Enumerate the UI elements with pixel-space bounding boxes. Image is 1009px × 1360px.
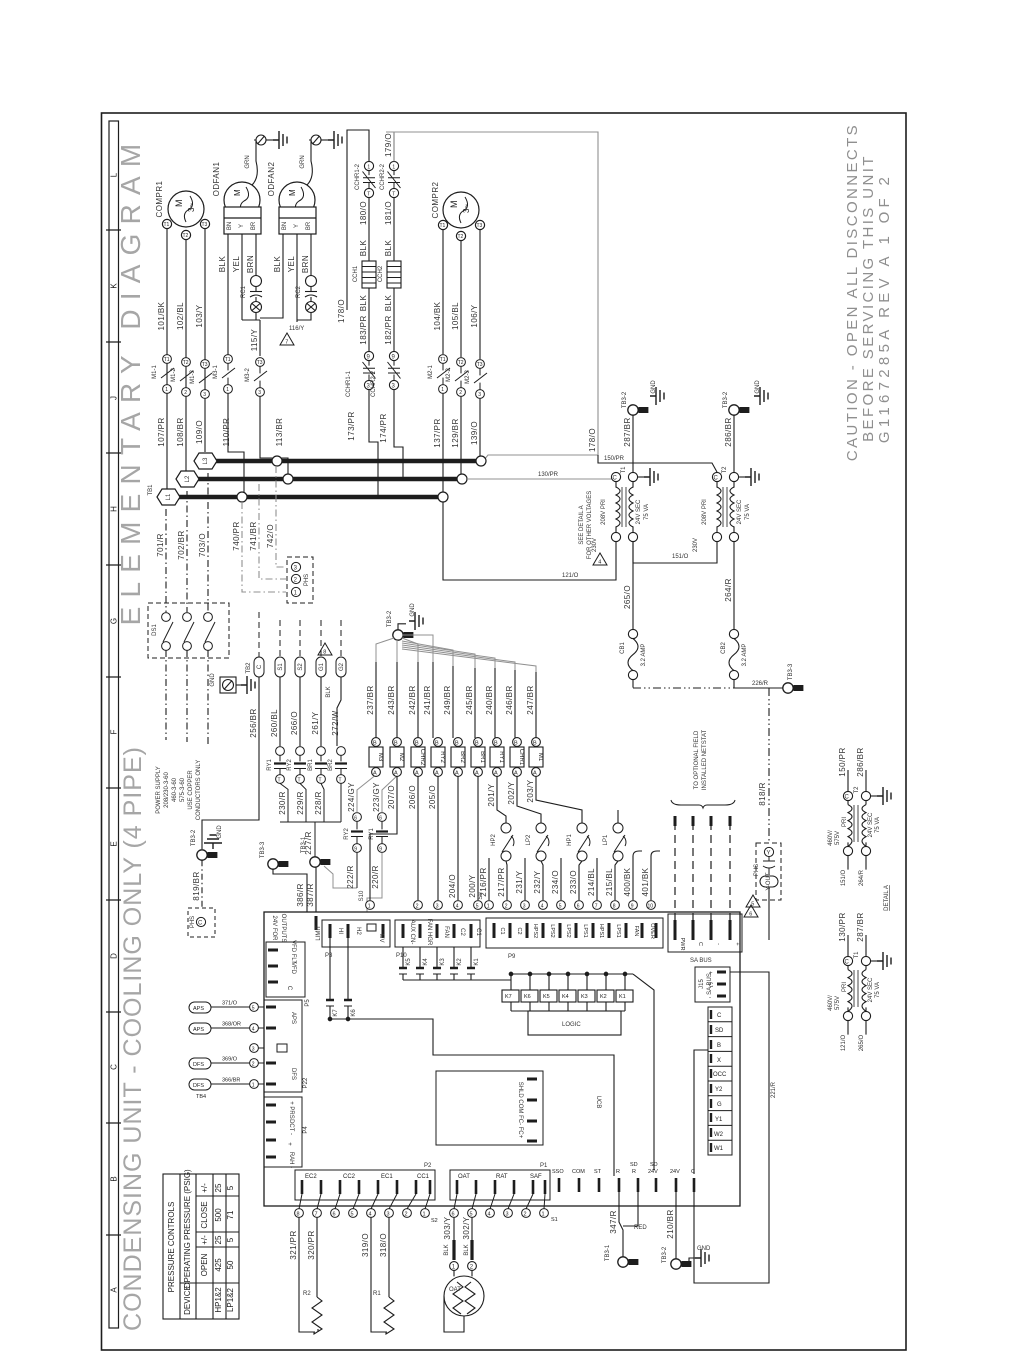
svg-text:R1: R1	[373, 1291, 381, 1297]
svg-text:H2: H2	[355, 927, 361, 935]
svg-text:RC1: RC1	[241, 285, 247, 298]
svg-text:247/BR: 247/BR	[526, 685, 535, 714]
svg-text:RED: RED	[634, 1225, 647, 1231]
svg-text:APS: APS	[193, 1006, 204, 1012]
svg-text:5: 5	[351, 1212, 354, 1218]
contactor M3-1	[222, 355, 235, 394]
svg-text:EC2: EC2	[305, 1174, 317, 1180]
svg-text:Y: Y	[239, 224, 245, 228]
contactor M2-2	[455, 358, 468, 397]
svg-text:APS: APS	[193, 1027, 204, 1033]
contactor M1-3	[199, 360, 212, 399]
svg-text:TB4: TB4	[196, 1094, 206, 1100]
svg-text:SAF: SAF	[530, 1174, 542, 1180]
zone letters	[110, 172, 119, 1292]
svg-text:BRN: BRN	[301, 255, 310, 273]
svg-text:BN: BN	[227, 222, 233, 230]
svg-text:GND: GND	[210, 673, 216, 687]
svg-text:T: T	[392, 192, 395, 198]
svg-text:1: 1	[367, 164, 370, 170]
svg-text:BR2: BR2	[328, 759, 334, 771]
svg-text:M1-3: M1-3	[190, 370, 196, 384]
svg-text:TB3-2: TB3-2	[191, 829, 197, 846]
svg-text:BLK: BLK	[326, 686, 332, 697]
svg-text:10: 10	[648, 904, 654, 910]
svg-text:BLK: BLK	[273, 256, 282, 273]
svg-text:25: 25	[214, 1235, 223, 1244]
svg-text:T3: T3	[257, 360, 263, 366]
svg-text:T2: T2	[458, 234, 464, 240]
svg-text:GND: GND	[217, 825, 223, 839]
svg-text:RY2: RY2	[439, 751, 445, 763]
S9 pin row	[485, 901, 656, 910]
svg-text:W2: W2	[714, 1132, 724, 1138]
svg-text:1: 1	[423, 1212, 426, 1218]
svg-text:216/PR: 216/PR	[479, 867, 488, 896]
svg-text:8: 8	[613, 904, 616, 910]
svg-text:CONDUCTORS ONLY: CONDUCTORS ONLY	[196, 760, 202, 820]
svg-text:GRN: GRN	[300, 155, 306, 168]
relay coils RY1 RY2 BR1 BR2	[274, 747, 347, 857]
svg-text:M1-1: M1-1	[152, 365, 158, 379]
svg-text:201/Y: 201/Y	[487, 783, 496, 806]
contact CCHR1-1	[363, 351, 376, 389]
svg-text:PRI: PRI	[842, 982, 848, 992]
svg-text:+/-: +/-	[200, 1235, 209, 1245]
svg-text:RY2: RY2	[287, 759, 293, 771]
svg-text:425: 425	[214, 1258, 223, 1272]
svg-text:T: T	[339, 778, 342, 784]
svg-text:130/PR: 130/PR	[538, 472, 559, 478]
netstat dashed drops	[675, 822, 730, 930]
TB3-3 node right of CB2	[734, 680, 783, 688]
svg-text:BRN: BRN	[246, 255, 255, 273]
svg-text:150/PR: 150/PR	[604, 456, 625, 462]
svg-text:C: C	[845, 795, 850, 801]
svg-text:221/R: 221/R	[771, 1081, 777, 1098]
svg-text:DETAIL A: DETAIL A	[884, 885, 890, 911]
svg-text:APS: APS	[290, 1012, 296, 1024]
svg-text:TB3-3: TB3-3	[788, 663, 794, 680]
svg-text:3.2 AMP: 3.2 AMP	[641, 644, 647, 667]
svg-text:6: 6	[577, 904, 580, 910]
svg-text:T: T	[367, 192, 370, 198]
breaker CB1	[628, 629, 638, 679]
svg-text:T2: T2	[458, 360, 464, 366]
svg-text:5: 5	[226, 1185, 235, 1190]
svg-text:575V: 575V	[835, 831, 841, 845]
svg-text:C: C	[691, 1169, 695, 1175]
svg-text:387/R: 387/R	[306, 883, 315, 907]
svg-text:TB3-1: TB3-1	[301, 836, 307, 853]
svg-text:M: M	[233, 189, 242, 196]
svg-text:R2: R2	[303, 1291, 311, 1297]
svg-text:1: 1	[542, 1212, 545, 1218]
210/BR to TB3-2	[676, 1192, 695, 1264]
svg-text:2: 2	[252, 1062, 255, 1068]
svg-text:LPS1: LPS1	[615, 924, 621, 937]
svg-text:ST: ST	[594, 1169, 602, 1175]
connector P2	[295, 1170, 435, 1200]
svg-text:P10: P10	[396, 953, 407, 959]
svg-text:CB1: CB1	[620, 642, 626, 654]
svg-text:302/Y: 302/Y	[462, 1216, 471, 1239]
svg-text:8: 8	[297, 1212, 300, 1218]
svg-text:9: 9	[379, 847, 382, 853]
svg-text:106/Y: 106/Y	[470, 304, 479, 327]
TB3-2 node at left with gnd	[197, 850, 218, 860]
svg-text:K5: K5	[543, 994, 550, 1000]
svg-text:1: 1	[487, 904, 490, 910]
svg-text:701/R: 701/R	[156, 533, 165, 557]
svg-text:24V: 24V	[670, 1169, 680, 1175]
svg-text:K3: K3	[581, 994, 588, 1000]
svg-text:BN: BN	[282, 222, 288, 230]
svg-text:C: C	[717, 1013, 722, 1019]
svg-text:C2: C2	[459, 928, 465, 936]
svg-text:129/BR: 129/BR	[451, 418, 460, 447]
breaker CB2	[729, 629, 739, 679]
svg-text:182/PR: 182/PR	[384, 315, 393, 344]
svg-text:205/O: 205/O	[428, 785, 437, 809]
svg-text:CC2: CC2	[343, 1174, 356, 1180]
feeds from coil row to switches	[497, 776, 618, 823]
contact CCHR2-2 lower	[388, 351, 401, 389]
svg-text:P3: P3	[325, 953, 333, 959]
svg-text:107/PR: 107/PR	[157, 417, 166, 446]
svg-text:OCC: OCC	[713, 1072, 727, 1078]
svg-text:P22: P22	[303, 1077, 309, 1088]
svg-text:A: A	[494, 771, 498, 777]
svg-text:B: B	[455, 741, 459, 747]
detail A transformer T2	[843, 770, 877, 870]
svg-text:K6: K6	[351, 1009, 357, 1017]
svg-text:CC1: CC1	[417, 1174, 430, 1180]
svg-text:L3: L3	[203, 457, 209, 464]
svg-text:M2: M2	[398, 753, 404, 762]
svg-text:2: 2	[505, 904, 508, 910]
svg-text:B: B	[514, 741, 518, 747]
SHLD COM FC box	[436, 1071, 543, 1145]
svg-text:RY1: RY1	[498, 751, 504, 763]
svg-text:M1: M1	[537, 753, 543, 762]
svg-text:P1: P1	[540, 1163, 548, 1169]
svg-text:GND: GND	[697, 1246, 711, 1252]
svg-text:P4: P4	[303, 1126, 309, 1134]
svg-text:+: +	[709, 971, 713, 977]
svg-text:3~: 3~	[462, 204, 471, 213]
TB3-2 fan node	[398, 624, 406, 630]
svg-text:174/PR: 174/PR	[379, 413, 388, 442]
svg-text:RAH -: RAH -	[288, 1152, 294, 1168]
svg-text:103/Y: 103/Y	[195, 304, 204, 327]
svg-text:SA BUS: SA BUS	[690, 958, 712, 964]
svg-text:S9: S9	[478, 892, 484, 900]
svg-text:6: 6	[333, 1212, 336, 1218]
heater CCH1	[362, 261, 376, 351]
svg-text:PHS: PHS	[190, 916, 196, 928]
svg-text:SEE DETAIL A: SEE DETAIL A	[579, 505, 585, 544]
nine coil boxes	[369, 738, 543, 777]
svg-text:L1: L1	[166, 493, 172, 500]
svg-text:VFD FLT: VFD FLT	[290, 940, 296, 964]
svg-text:PRI: PRI	[842, 817, 848, 827]
svg-text:287/BR: 287/BR	[856, 912, 865, 941]
svg-text:151/O: 151/O	[672, 554, 689, 560]
svg-text:BLK: BLK	[464, 1244, 470, 1255]
svg-text:BLK: BLK	[218, 256, 227, 273]
svg-text:Y2: Y2	[715, 1087, 723, 1093]
svg-text:108/BR: 108/BR	[176, 417, 185, 446]
svg-text:BR: BR	[251, 221, 257, 230]
svg-text:ODFAN2: ODFAN2	[267, 162, 276, 197]
R1 resistor circuit	[371, 1218, 394, 1335]
svg-text:50: 50	[226, 1260, 235, 1269]
svg-text:YEL: YEL	[232, 256, 241, 273]
svg-text:C1: C1	[499, 927, 505, 934]
fanout wires (gray)	[376, 635, 536, 672]
phase monitor PHS dash feeders 740-742	[242, 466, 286, 592]
svg-text:T1: T1	[164, 222, 170, 228]
svg-text:206/O: 206/O	[408, 785, 417, 809]
svg-text:PHS: PHS	[304, 574, 310, 586]
svg-text:B: B	[435, 741, 439, 747]
PHS Y-OUT dashed box	[756, 843, 781, 900]
svg-text:A: A	[373, 771, 377, 777]
svg-text:260/BL: 260/BL	[270, 709, 279, 737]
svg-text:575-3-60: 575-3-60	[180, 777, 186, 802]
contactor M1-1	[161, 355, 174, 394]
svg-text:130/PR: 130/PR	[838, 912, 847, 941]
svg-text:M2-1: M2-1	[428, 365, 434, 379]
svg-text:LOGIC: LOGIC	[562, 1022, 581, 1028]
svg-text:VFD: VFD	[290, 962, 296, 975]
svg-text:T: T	[298, 778, 301, 784]
svg-text:242/BR: 242/BR	[408, 685, 417, 714]
svg-text:347/R: 347/R	[609, 1210, 618, 1234]
LIMIT pin	[315, 916, 318, 930]
svg-text:224/GY: 224/GY	[347, 782, 356, 812]
svg-text:6: 6	[379, 816, 382, 822]
svg-text:2: 2	[524, 1212, 527, 1218]
svg-text:9: 9	[354, 847, 357, 853]
svg-text:K7: K7	[333, 1009, 339, 1017]
svg-text:YEL: YEL	[287, 256, 296, 273]
svg-text:230V: 230V	[592, 538, 598, 552]
svg-text:G1: G1	[319, 662, 325, 671]
svg-text:223/GY: 223/GY	[372, 782, 381, 812]
connector P1	[450, 1170, 550, 1200]
svg-text:SD: SD	[650, 1162, 658, 1168]
svg-text:-: -	[715, 943, 721, 945]
svg-text:LP1&2: LP1&2	[226, 1287, 235, 1312]
K contact bars under P10	[399, 947, 511, 980]
bus L3	[194, 453, 478, 469]
svg-text:3: 3	[203, 392, 206, 398]
svg-text:C1: C1	[475, 928, 481, 936]
svg-text:256/BR: 256/BR	[249, 708, 258, 737]
svg-text:71: 71	[226, 1210, 235, 1219]
819/BR dashed drop	[201, 860, 203, 908]
svg-text:702/BR: 702/BR	[177, 530, 186, 559]
fan motor ODFAN2	[279, 182, 316, 234]
pressure controls table	[163, 1174, 239, 1319]
svg-text:CCH2: CCH2	[378, 265, 384, 282]
svg-text:TB3-2: TB3-2	[662, 1246, 668, 1263]
svg-text:101/BK: 101/BK	[157, 301, 166, 330]
svg-text:740/PR: 740/PR	[232, 521, 241, 550]
svg-text:COMPR2: COMPR2	[431, 181, 440, 218]
svg-text:4: 4	[541, 904, 544, 910]
svg-text:5: 5	[559, 904, 562, 910]
svg-text:232/Y: 232/Y	[533, 870, 542, 893]
svg-text:6: 6	[749, 912, 752, 918]
svg-text:203/Y: 203/Y	[526, 779, 535, 802]
svg-text:BLK: BLK	[444, 1244, 450, 1255]
svg-text:24V: 24V	[648, 1169, 658, 1175]
svg-text:ELEMENTARY DIAGRAM: ELEMENTARY DIAGRAM	[115, 135, 146, 626]
svg-text:COMPR1: COMPR1	[155, 180, 164, 217]
APS DFS field bubbles	[189, 1002, 264, 1090]
svg-text:3.2 AMP: 3.2 AMP	[742, 644, 748, 667]
K relay boxes + LOGIC	[502, 972, 654, 1170]
svg-text:C: C	[286, 986, 292, 991]
svg-text:K6: K6	[524, 994, 531, 1000]
svg-text:B: B	[394, 741, 398, 747]
zone letter strip	[106, 121, 121, 1328]
svg-text:OVER: OVER	[649, 923, 655, 939]
svg-text:703/O: 703/O	[198, 533, 207, 557]
L2 thin extension to T1	[467, 478, 614, 480]
wires below TB2	[202, 677, 341, 849]
S2 pin row	[295, 1194, 430, 1217]
svg-text:BLK: BLK	[359, 295, 368, 312]
S10 pin row	[366, 901, 483, 910]
P22 connector	[264, 1000, 302, 1092]
svg-text:P5: P5	[305, 999, 311, 1007]
svg-text:208V PRI: 208V PRI	[601, 499, 607, 525]
OAT sensor	[444, 1218, 484, 1333]
svg-text:Y: Y	[767, 851, 771, 857]
svg-text:FAN: FAN	[443, 926, 449, 938]
svg-text:E: E	[110, 841, 119, 846]
svg-text:6: 6	[354, 816, 357, 822]
svg-text:HI: HI	[337, 928, 343, 934]
svg-text:240/BR: 240/BR	[485, 685, 494, 714]
svg-text:3: 3	[506, 1212, 509, 1218]
svg-text:T1: T1	[225, 357, 231, 363]
svg-text:369/O: 369/O	[222, 1057, 238, 1063]
svg-text:CHR2: CHR2	[419, 749, 425, 766]
svg-text:1: 1	[392, 164, 395, 170]
svg-text:386/R: 386/R	[296, 883, 305, 907]
svg-text:T1: T1	[440, 223, 446, 229]
svg-text:A: A	[475, 771, 479, 777]
svg-text:575V: 575V	[835, 996, 841, 1010]
svg-text:3~: 3~	[187, 203, 196, 212]
svg-text:371/O: 371/O	[222, 1001, 238, 1007]
svg-text:T2: T2	[183, 233, 189, 239]
svg-text:M3: M3	[377, 753, 383, 762]
svg-text:7: 7	[315, 1212, 318, 1218]
thermostat terminal strip	[708, 1007, 732, 1155]
wires M3 to bus	[228, 394, 288, 492]
svg-text:2: 2	[405, 1212, 408, 1218]
svg-text:5: 5	[476, 904, 479, 910]
ODFAN1 GRN ground	[252, 135, 273, 185]
node on L3	[272, 456, 282, 466]
svg-text:M: M	[288, 189, 297, 196]
svg-text:SSO: SSO	[552, 1169, 564, 1175]
svg-text:265/O: 265/O	[623, 585, 632, 609]
svg-text:230V: 230V	[693, 538, 699, 552]
svg-text:LIMIT: LIMIT	[316, 925, 322, 941]
compressor motor COMPR1	[162, 191, 209, 240]
svg-text:110/PR: 110/PR	[222, 418, 231, 447]
svg-text:741/BR: 741/BR	[249, 521, 258, 550]
svg-text:Y: Y	[294, 224, 300, 228]
178/O feeder (gray)	[386, 132, 598, 460]
svg-text:102/BL: 102/BL	[176, 302, 185, 330]
svg-text:TB3-2: TB3-2	[387, 610, 393, 627]
svg-text:S1: S1	[551, 1217, 558, 1223]
svg-text:C: C	[110, 1064, 119, 1070]
svg-text:S2: S2	[298, 663, 304, 671]
svg-text:1: 1	[441, 387, 444, 393]
svg-text:USE COPPER: USE COPPER	[188, 770, 194, 810]
svg-text:237/BR: 237/BR	[366, 685, 375, 714]
svg-text:460V/: 460V/	[828, 995, 834, 1011]
svg-text:265/O: 265/O	[859, 1035, 865, 1052]
svg-text:222/R: 222/R	[346, 865, 355, 889]
connector P10	[395, 920, 480, 947]
svg-text:M: M	[174, 200, 184, 208]
nine drops + labels	[376, 662, 536, 738]
warning triangle 7	[280, 333, 294, 346]
svg-text:RY1: RY1	[267, 759, 273, 771]
svg-text:RC2: RC2	[296, 285, 302, 298]
svg-text:261/Y: 261/Y	[311, 711, 320, 734]
svg-text:460V/: 460V/	[828, 830, 834, 846]
svg-text:318/O: 318/O	[379, 1233, 388, 1257]
svg-text:C: C	[257, 664, 263, 669]
svg-text:T3: T3	[477, 362, 483, 368]
svg-text:T: T	[319, 778, 322, 784]
svg-text:GND: GND	[410, 603, 416, 617]
svg-text:OPERATING PRESSURE (PSIG): OPERATING PRESSURE (PSIG)	[183, 1169, 192, 1289]
svg-text:T2: T2	[854, 786, 860, 794]
svg-text:5: 5	[252, 1006, 255, 1012]
svg-text:401/BK: 401/BK	[641, 867, 650, 896]
svg-text:4: 4	[369, 1212, 372, 1218]
svg-text:137/PR: 137/PR	[433, 418, 442, 447]
svg-text:24V SEC: 24V SEC	[868, 977, 874, 1002]
contactor M3-2	[254, 358, 267, 397]
contactor M1-2	[180, 358, 193, 397]
svg-text:321/PR: 321/PR	[289, 1230, 298, 1259]
svg-text:1: 1	[226, 387, 229, 393]
connector P3	[322, 920, 390, 947]
svg-text:K3: K3	[440, 958, 446, 966]
svg-text:113/BR: 113/BR	[275, 418, 284, 447]
svg-text:TB1: TB1	[148, 484, 154, 496]
svg-text:183/PR: 183/PR	[359, 315, 368, 344]
node L3 right end	[476, 456, 486, 466]
svg-text:OPEN: OPEN	[200, 1253, 209, 1276]
svg-text:B: B	[717, 1043, 721, 1049]
T1 230V tap wire already from 121/O ; T1 bottom right to 151/O	[633, 542, 717, 563]
svg-text:181/O: 181/O	[384, 201, 393, 225]
